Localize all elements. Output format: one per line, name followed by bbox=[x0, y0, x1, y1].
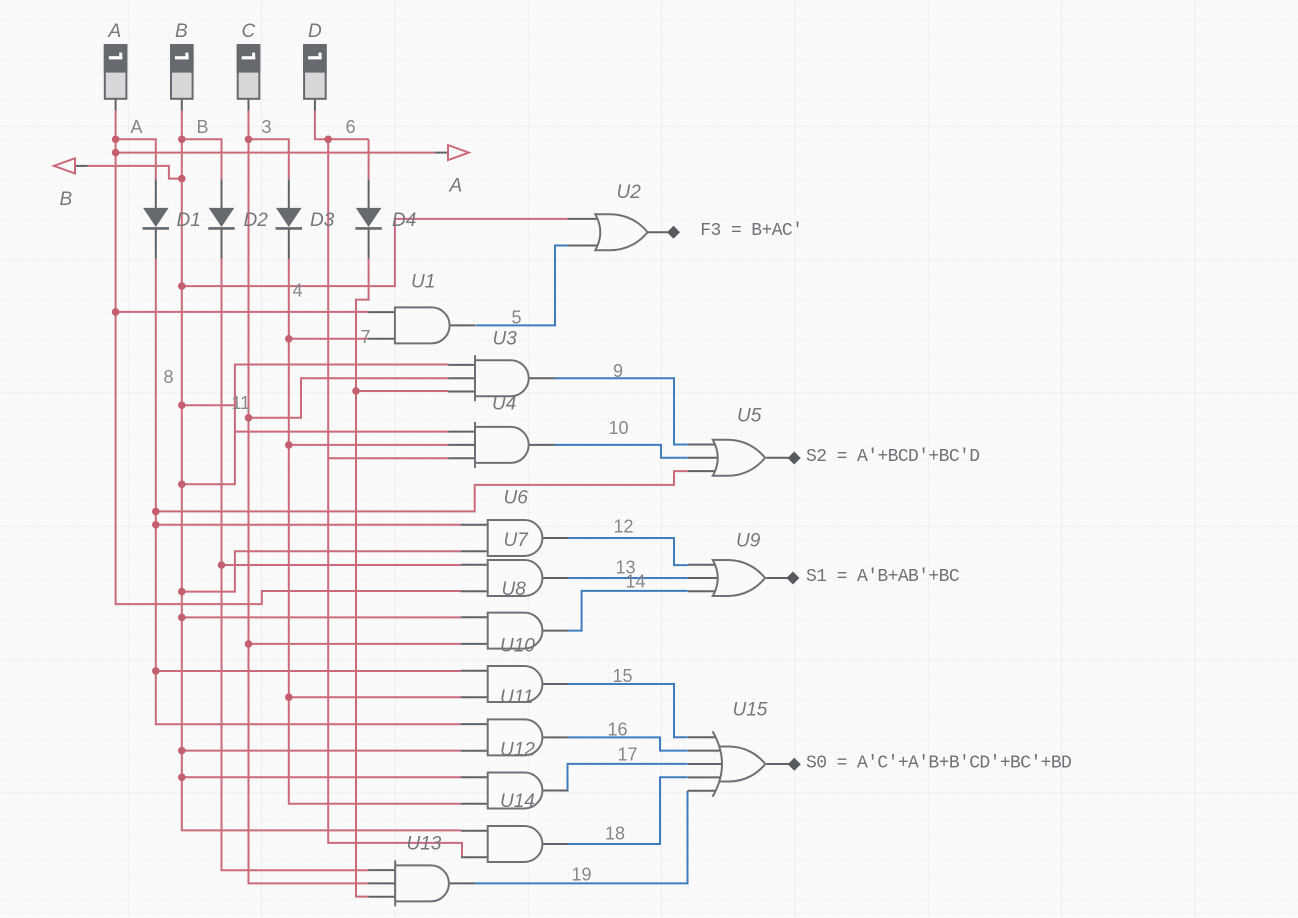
svg-text:A: A bbox=[449, 175, 463, 196]
svg-text:C: C bbox=[242, 21, 256, 42]
svg-text:6: 6 bbox=[346, 117, 356, 137]
svg-text:F3 = B+AC': F3 = B+AC' bbox=[700, 221, 802, 241]
svg-text:14: 14 bbox=[626, 572, 646, 592]
svg-text:U1: U1 bbox=[411, 272, 435, 293]
svg-text:U9: U9 bbox=[736, 531, 761, 552]
svg-text:10: 10 bbox=[609, 418, 629, 438]
svg-text:B: B bbox=[175, 21, 188, 42]
svg-text:S0 = A'C'+A'B+B'CD'+BC'+BD: S0 = A'C'+A'B+B'CD'+BC'+BD bbox=[806, 753, 1071, 773]
svg-text:D4: D4 bbox=[392, 210, 416, 231]
svg-text:U13: U13 bbox=[407, 834, 442, 855]
svg-text:D3: D3 bbox=[310, 210, 335, 231]
svg-text:B: B bbox=[60, 189, 73, 210]
svg-text:U12: U12 bbox=[500, 740, 535, 761]
svg-text:3: 3 bbox=[262, 117, 272, 137]
svg-text:4: 4 bbox=[293, 281, 303, 301]
svg-text:U10: U10 bbox=[500, 636, 535, 657]
svg-text:16: 16 bbox=[608, 720, 628, 740]
svg-text:U2: U2 bbox=[617, 182, 642, 203]
svg-text:7: 7 bbox=[361, 327, 371, 347]
svg-text:5: 5 bbox=[512, 308, 522, 328]
svg-text:D: D bbox=[308, 21, 322, 42]
svg-text:18: 18 bbox=[605, 824, 625, 844]
svg-text:12: 12 bbox=[614, 517, 634, 537]
svg-text:D1: D1 bbox=[177, 210, 201, 231]
svg-text:U3: U3 bbox=[493, 329, 518, 350]
svg-text:8: 8 bbox=[164, 367, 174, 387]
svg-text:D2: D2 bbox=[244, 210, 269, 231]
svg-text:11: 11 bbox=[232, 393, 251, 413]
svg-text:B: B bbox=[197, 117, 209, 137]
svg-text:U15: U15 bbox=[733, 700, 768, 721]
svg-text:U14: U14 bbox=[500, 791, 535, 812]
svg-text:S2 = A'+BCD'+BC'D: S2 = A'+BCD'+BC'D bbox=[806, 447, 979, 467]
svg-text:U6: U6 bbox=[504, 488, 529, 509]
svg-text:U11: U11 bbox=[500, 687, 533, 708]
svg-text:S1 = A'B+AB'+BC: S1 = A'B+AB'+BC bbox=[806, 567, 960, 587]
svg-text:19: 19 bbox=[572, 865, 592, 885]
svg-text:17: 17 bbox=[618, 745, 638, 765]
svg-text:U7: U7 bbox=[504, 530, 530, 551]
svg-text:A: A bbox=[131, 117, 143, 137]
svg-text:U4: U4 bbox=[492, 394, 516, 415]
svg-text:U8: U8 bbox=[502, 579, 527, 600]
svg-text:15: 15 bbox=[613, 666, 633, 686]
svg-text:A: A bbox=[108, 21, 122, 42]
svg-text:9: 9 bbox=[613, 361, 623, 381]
svg-text:U5: U5 bbox=[737, 406, 762, 427]
